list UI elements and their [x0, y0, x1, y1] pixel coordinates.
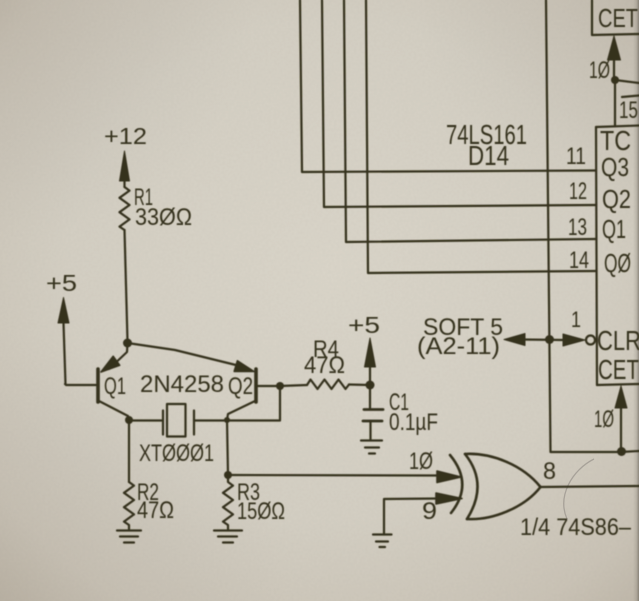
- label pin 13: [568, 214, 587, 241]
- ground below R2: [117, 531, 141, 543]
- crystal label XT0001: [139, 440, 214, 467]
- svg-text:12: 12: [569, 178, 587, 205]
- svg-text:CLR: CLR: [597, 325, 639, 356]
- resistor R3: [223, 475, 233, 530]
- crystal XT0001: [129, 404, 280, 437]
- label pin 12: [569, 178, 587, 205]
- junction emitters: [123, 339, 132, 348]
- svg-text:1Ø: 1Ø: [589, 57, 610, 84]
- wire Q3 pin 11: [300, 0, 596, 172]
- resistor R2: [124, 482, 134, 530]
- power arrow +12: [120, 151, 130, 187]
- label Q1 pin: [602, 214, 626, 244]
- label pin 1: [571, 307, 581, 332]
- resistor R4 label 47 ohm: [304, 336, 345, 379]
- node +5 left label: [46, 270, 77, 296]
- svg-text:(A2-11): (A2-11): [417, 333, 500, 360]
- svg-text:15: 15: [619, 97, 638, 124]
- svg-text:1Ø: 1Ø: [594, 406, 614, 433]
- node R3 / XOR input: [224, 471, 232, 479]
- label Q0 pin: [604, 248, 631, 278]
- label pin 10 lower CET: [594, 406, 614, 433]
- transistor Q2: [254, 369, 258, 402]
- label pin 11: [566, 143, 586, 170]
- label CET upper: [598, 3, 638, 33]
- power arrow +5 left: [58, 298, 69, 385]
- XOR input 10 arrowhead: [437, 471, 461, 483]
- label Q3: [601, 152, 629, 182]
- inverter bubble at CLR pin 1: [586, 336, 595, 345]
- svg-text:2N4258: 2N4258: [140, 371, 224, 398]
- wire Q1 pin 13: [344, 0, 596, 242]
- svg-text:+5: +5: [46, 270, 77, 296]
- node +5 right label: [348, 312, 380, 338]
- svg-text:+5: +5: [348, 312, 380, 338]
- chip upper outline corner: [592, 0, 639, 35]
- label CLR: [597, 325, 639, 356]
- node Q2 base junction: [276, 382, 284, 390]
- label TC: [600, 125, 631, 156]
- wire R2: [128, 420, 130, 482]
- resistor R3 label 150 ohm: [237, 479, 285, 525]
- svg-text:1Ø: 1Ø: [409, 448, 433, 475]
- node CET wire junction: [617, 447, 626, 456]
- ground at XOR input 9: [373, 535, 392, 548]
- capacitor C1: [363, 385, 383, 440]
- node +12 label: [104, 123, 147, 149]
- wire Q2 pin 12: [322, 0, 596, 207]
- transistor Q1: [96, 369, 100, 402]
- label Q2 pin: [602, 184, 631, 214]
- wire TC branch to right edge: [615, 80, 639, 83]
- svg-text:Q2: Q2: [602, 184, 631, 214]
- label pin 14: [569, 247, 589, 274]
- label pin 15: [619, 97, 638, 124]
- node R4 / C1 / +5: [366, 381, 375, 390]
- label D14: [468, 140, 509, 171]
- wire junction to right edge: [621, 451, 639, 452]
- svg-text:33ØΩ: 33ØΩ: [135, 204, 192, 231]
- power arrow +5 right: [365, 338, 376, 385]
- svg-text:CET: CET: [598, 354, 639, 385]
- node TC branch junction: [611, 76, 619, 84]
- wire to CET pin 10 of D14: [615, 386, 627, 452]
- wire R1 to emitter junction: [125, 230, 128, 341]
- svg-text:Q1: Q1: [602, 214, 626, 244]
- svg-text:Q1: Q1: [104, 373, 126, 400]
- svg-text:XTØØØ1: XTØØØ1: [139, 440, 214, 467]
- ground below C1: [361, 441, 382, 454]
- wire TC pin 15 to upper CET pin 10: [608, 36, 621, 126]
- svg-text:8: 8: [543, 458, 556, 485]
- node SOFT5 junction: [545, 335, 554, 344]
- svg-text:13: 13: [568, 214, 587, 241]
- resistor R4: [280, 380, 369, 390]
- wire base junction down to collector net: [279, 386, 281, 420]
- svg-text:QØ: QØ: [604, 248, 631, 278]
- label 74LS161: [446, 119, 527, 150]
- wire Q2 base to R4: [257, 385, 279, 387]
- label 2N4258: [140, 371, 224, 398]
- label CET lower: [598, 354, 639, 385]
- svg-text:11: 11: [566, 143, 586, 170]
- wire Q2 emitter: [128, 343, 255, 372]
- label 1/4 74S86: [520, 514, 632, 541]
- svg-text:0.1µF: 0.1µF: [389, 409, 438, 436]
- capacitor C1 labels: [389, 389, 438, 436]
- wire +5 to Q1 base: [65, 384, 96, 385]
- label pin 8 XOR: [543, 458, 556, 485]
- svg-text:+12: +12: [104, 123, 147, 149]
- node collector Q2: [224, 417, 230, 423]
- label pin 10 upper CET: [589, 57, 610, 84]
- wire stub near pin 15: [622, 96, 639, 98]
- XOR input 9 arrowhead: [436, 493, 462, 504]
- wire oscillator output to XOR input 10: [228, 474, 438, 477]
- wire XOR input 9 from ground: [384, 499, 438, 535]
- wire SOFT5 vertical bus: [546, 0, 621, 452]
- wire SOFT5 to CLR with double arrows: [504, 334, 585, 347]
- ground below R3: [214, 531, 242, 543]
- svg-text:1: 1: [571, 307, 581, 332]
- wire Q0 pin 14: [366, 0, 596, 273]
- resistor R2 label 47 ohm: [137, 479, 174, 524]
- svg-text:CET: CET: [598, 3, 638, 33]
- svg-text:1/4 74S86–: 1/4 74S86–: [520, 514, 632, 541]
- svg-text:47Ω: 47Ω: [137, 497, 174, 524]
- chip D14 74LS161 outline: [596, 126, 639, 386]
- wire XOR output: [540, 486, 639, 487]
- node collector Q1: [125, 416, 133, 424]
- svg-text:15ØΩ: 15ØΩ: [237, 498, 285, 525]
- wire Q2 collector: [227, 401, 255, 420]
- wire R3: [227, 420, 228, 475]
- resistor R1: [120, 187, 130, 230]
- label pin 10 XOR: [409, 448, 433, 475]
- svg-text:47Ω: 47Ω: [304, 352, 345, 379]
- XOR gate 1/4 74S86: [450, 454, 541, 519]
- svg-text:Q2: Q2: [228, 373, 253, 400]
- label pin 9 XOR: [422, 498, 437, 525]
- resistor R1 label 330 ohm: [134, 184, 192, 231]
- svg-text:D14: D14: [468, 140, 509, 171]
- svg-text:Q3: Q3: [601, 152, 629, 182]
- label SOFT 5 (A2-11): [417, 314, 503, 360]
- svg-text:14: 14: [569, 247, 589, 274]
- wire Q1 collector: [99, 401, 129, 420]
- wire Q1 emitter: [101, 343, 128, 372]
- svg-text:9: 9: [422, 498, 437, 525]
